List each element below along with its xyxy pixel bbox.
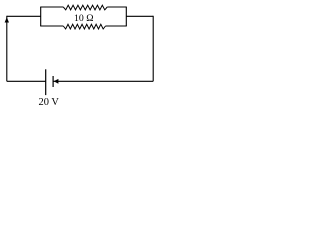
wire: top branch right lead [107, 6, 127, 8]
wire: bottom lead from battery to left corner [7, 80, 46, 82]
current arrow on left wire (pointing up) [5, 17, 9, 22]
resistor R1 (top branch zigzag) [63, 5, 107, 10]
wire: bottom branch left lead [40, 25, 63, 27]
current arrow on bottom wire (pointing left into battery) [54, 79, 59, 84]
node: box right junction [125, 7, 127, 26]
svg-text:10 Ω: 10 Ω [74, 13, 94, 24]
node: box left junction [40, 7, 42, 26]
wire: top lead from left corner to parallel box [7, 15, 41, 17]
svg-text:20 V: 20 V [39, 97, 60, 108]
wire: bottom branch right lead [106, 25, 127, 27]
wire: right vertical side of loop [152, 16, 154, 82]
wire: top branch left lead [40, 6, 63, 8]
resistor R2 (bottom branch zigzag) [63, 24, 105, 29]
wire: bottom lead from right corner to battery [53, 80, 153, 82]
wire: left vertical side of loop [6, 16, 8, 82]
wire: lead from box to right corner [126, 15, 153, 17]
battery V1 negative plate (short) [52, 76, 54, 87]
battery V1 positive plate (long) [45, 69, 47, 95]
